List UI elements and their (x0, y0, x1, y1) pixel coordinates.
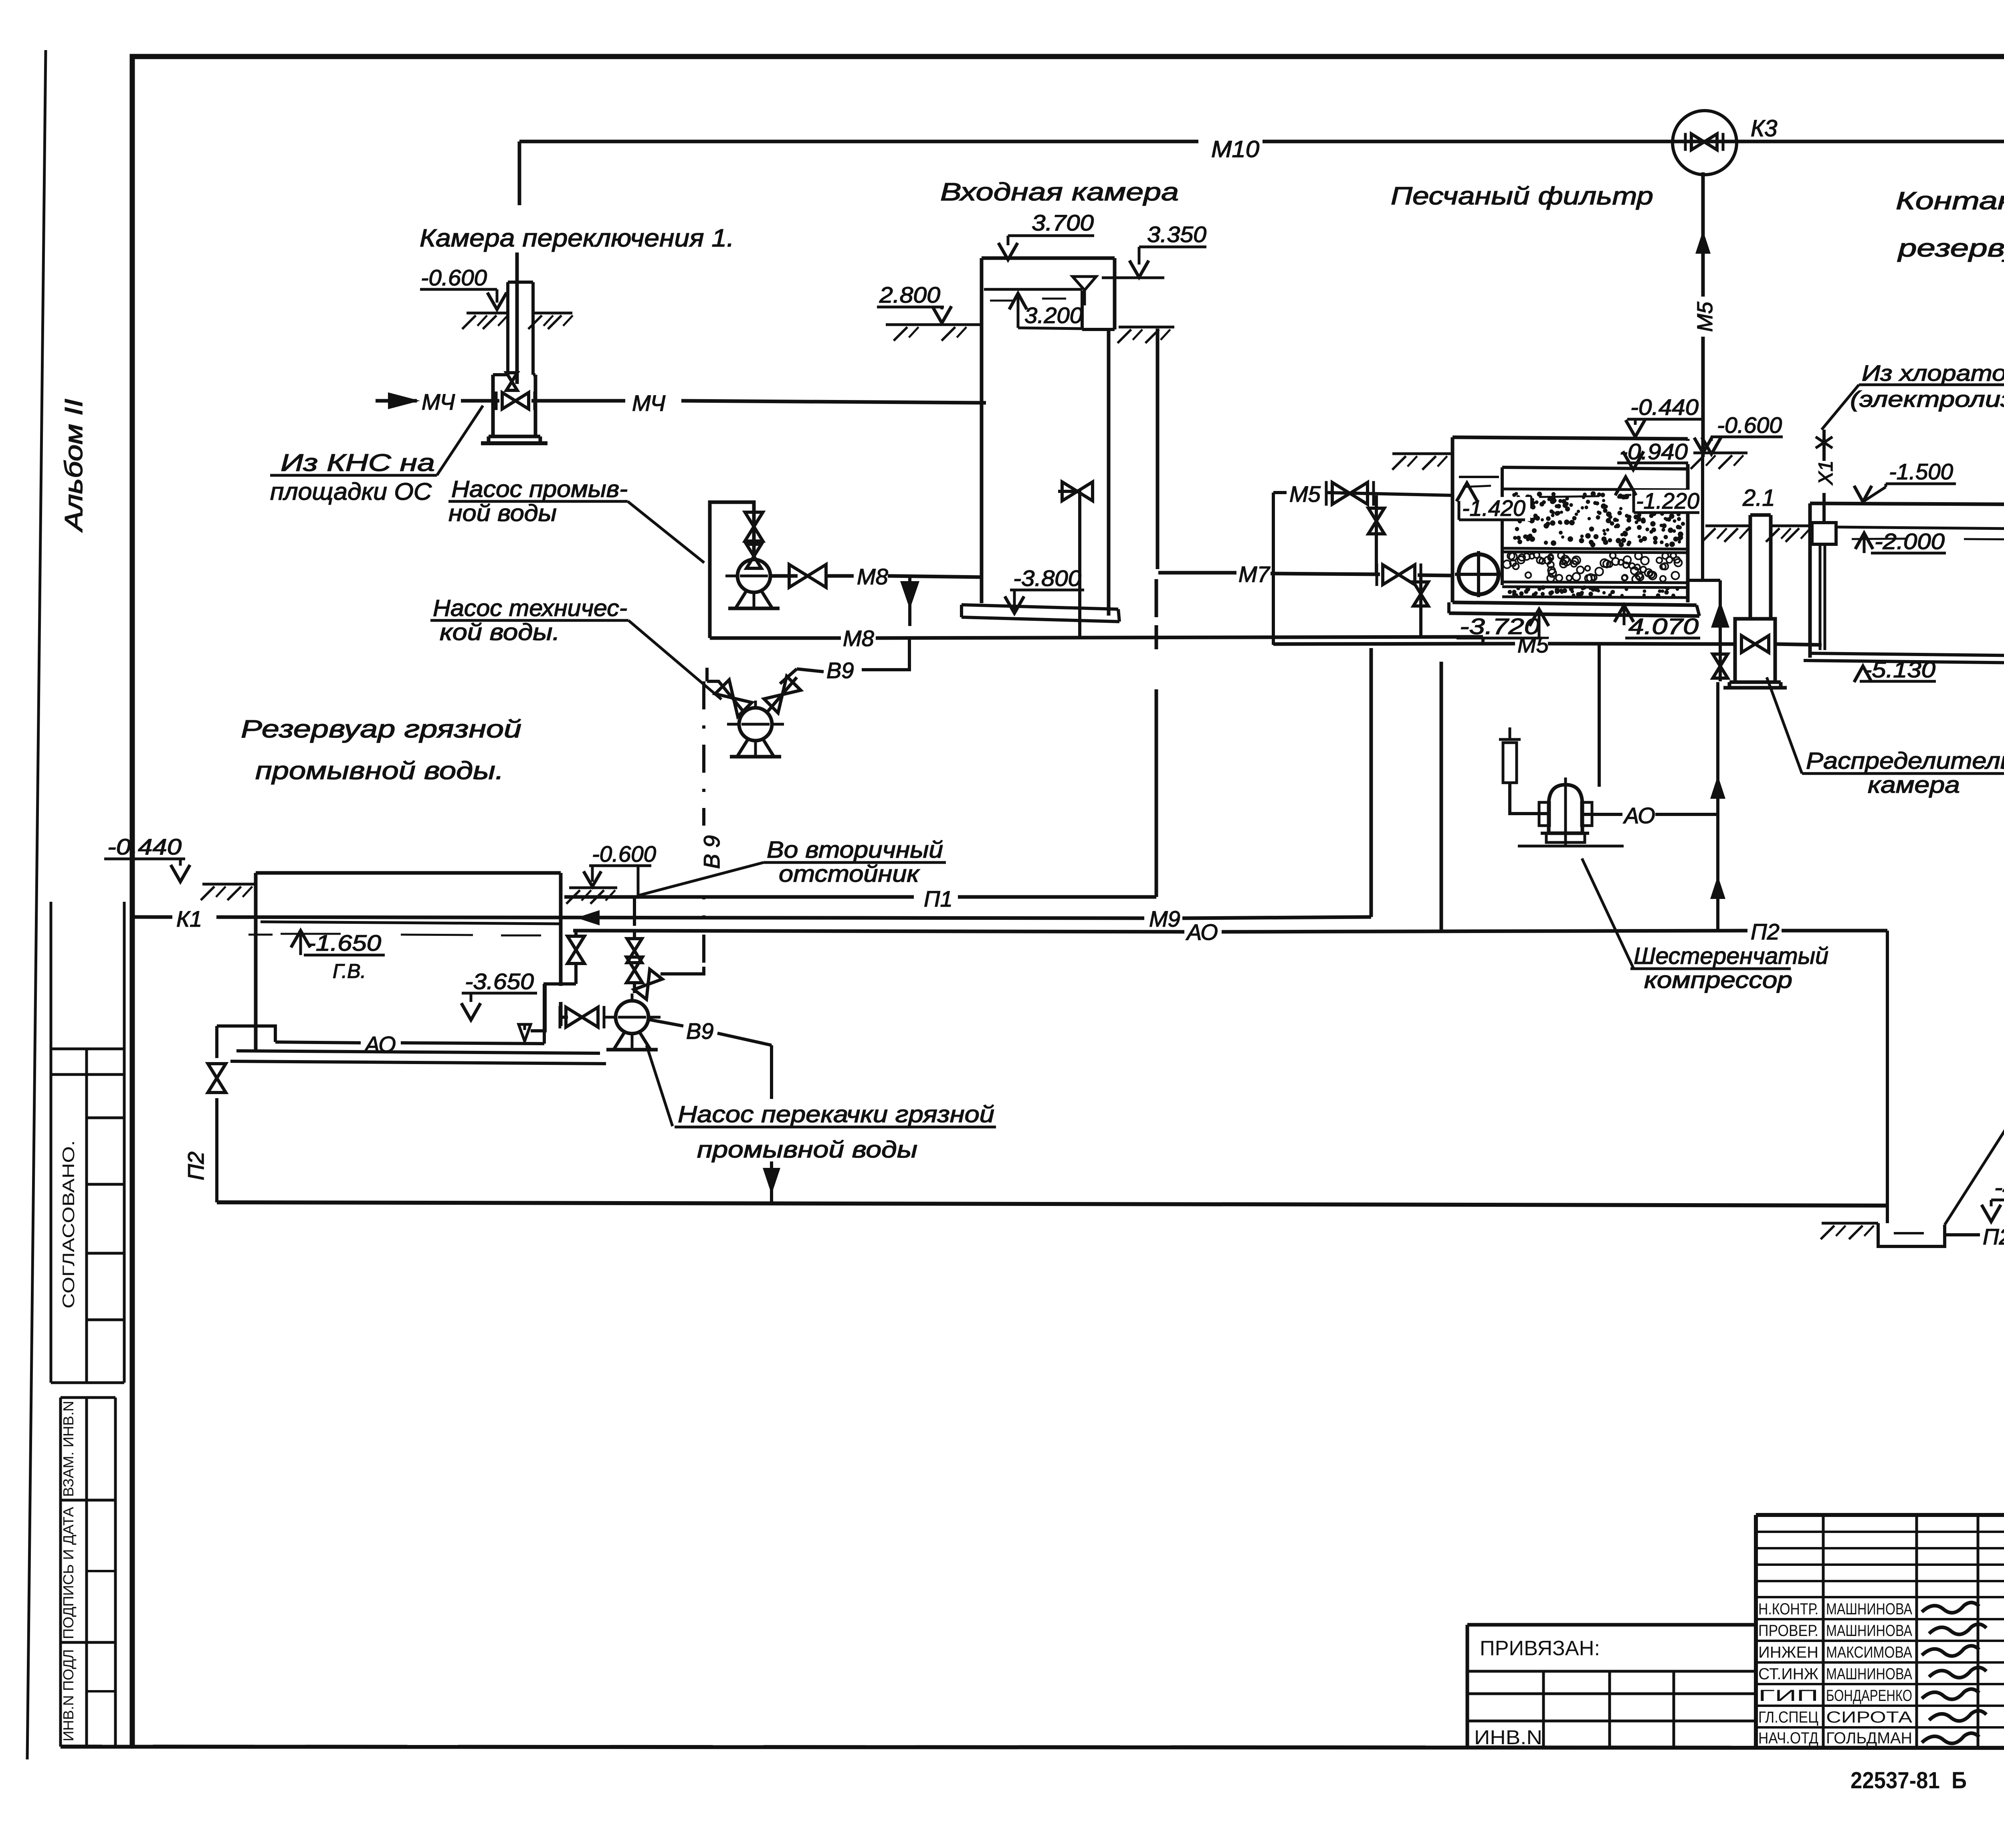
svg-text:2.800: 2.800 (879, 282, 940, 307)
svg-text:БОНДАРЕНКО: БОНДАРЕНКО (1826, 1687, 1912, 1705)
gear compressor (1549, 785, 1582, 833)
svg-text:-1.650: -1.650 (307, 930, 381, 955)
pipe М5 long (1273, 644, 1515, 644)
tech pump suction branch left (707, 681, 744, 713)
АО line in tank (275, 1042, 361, 1043)
svg-text:ПРИВЯЗАН:: ПРИВЯЗАН: (1480, 1637, 1600, 1660)
pipe АО/П2 long (573, 931, 1184, 932)
wash pump discharge М8 (770, 574, 798, 578)
svg-text:22537-81 Б: 22537-81 Б (1850, 1767, 1967, 1793)
svg-text:(электролизной): (электролизной) (1850, 386, 2004, 412)
svg-text:резервуар: резервуар (1897, 234, 2004, 262)
svg-text:площадки ОС: площадки ОС (270, 478, 432, 505)
svg-text:Х1: Х1 (1814, 460, 1837, 485)
svg-text:ПОДПИСЬ И ДАТА: ПОДПИСЬ И ДАТА (60, 1507, 77, 1639)
leader во вторичный (637, 862, 764, 896)
inlet fitting on left wall (1812, 523, 1836, 544)
П1 riser to М7 (1155, 689, 1158, 897)
elevation −1.420 (1458, 497, 1530, 521)
filter inner box (1501, 467, 1504, 585)
tech pump discharge branch right (767, 677, 797, 713)
switching chamber body (491, 375, 495, 436)
svg-text:МАШНИНОВА: МАШНИНОВА (1826, 1665, 1912, 1683)
svg-text:-1.420: -1.420 (1462, 495, 1525, 521)
ground left of inlet chamber (886, 323, 982, 326)
inlet chamber outlet channel walls (1107, 329, 1111, 616)
sheet outer edge line left (27, 50, 46, 1759)
svg-text:М9: М9 (1149, 906, 1180, 931)
svg-text:СОГЛАСОВАНО.: СОГЛАСОВАНО. (59, 1140, 78, 1309)
ground at 2.1 chamber (1705, 525, 1750, 527)
svg-text:ГИП: ГИП (1758, 1687, 1818, 1705)
svg-text:-2.000: -2.000 (1875, 529, 1945, 554)
pipe К1/М9 (131, 917, 1144, 918)
svg-text:К1: К1 (176, 906, 202, 931)
pipe В9 from pump to П2 drop (649, 1020, 683, 1026)
pump technical water (727, 723, 784, 726)
sand dots pattern (1562, 499, 1566, 504)
svg-text:СИРОТА: СИРОТА (1826, 1709, 1912, 1726)
stamp column upper (СОГЛАСОВАНО) (50, 902, 53, 1383)
svg-text:Контактный: Контактный (1896, 187, 2004, 215)
pipe В9 branch (862, 638, 909, 670)
inlet chamber walls (980, 258, 984, 603)
filter water level (1459, 476, 1499, 478)
svg-text:отстойник: отстойник (779, 861, 920, 887)
svg-text:М8: М8 (843, 626, 874, 651)
В9 dash-dot vertical (left) (702, 681, 705, 967)
title block main box (1756, 1513, 2004, 1517)
svg-text:4.070: 4.070 (1628, 614, 1699, 639)
pipe П2 bottom (217, 1202, 1887, 1206)
svg-text:П1: П1 (924, 886, 953, 911)
svg-text:-5.130: -5.130 (1863, 657, 1935, 682)
water level inlet chamber (984, 288, 1082, 291)
wash pump recirculation loop (710, 502, 754, 638)
svg-text:МАКСИМОВА: МАКСИМОВА (1826, 1644, 1912, 1661)
svg-text:-3.650: -3.650 (465, 969, 534, 994)
svg-text:МАШНИНОВА: МАШНИНОВА (1826, 1622, 1912, 1640)
svg-text:-1.220: -1.220 (1636, 488, 1699, 513)
tank floor (236, 1051, 600, 1053)
svg-text:М8: М8 (857, 564, 888, 589)
leader распределительная (1767, 677, 1802, 774)
pump discharge stack (633, 983, 636, 993)
svg-text:Н.КОНТР.: Н.КОНТР. (1758, 1600, 1818, 1618)
air intake device (1503, 743, 1517, 783)
svg-text:П2: П2 (183, 1151, 208, 1180)
pipe М10 (519, 140, 1198, 143)
valves on wash pump loop (745, 512, 763, 541)
svg-text:АО: АО (1186, 919, 1218, 945)
elevation 3.200 (1009, 293, 1027, 309)
water level tank (261, 922, 559, 924)
svg-text:промывной воды: промывной воды (697, 1137, 917, 1163)
svg-text:МЧ: МЧ (422, 389, 455, 414)
svg-text:3.700: 3.700 (1032, 210, 1094, 235)
suction piping (531, 984, 576, 1031)
svg-text:Резервуар грязной: Резервуар грязной (241, 715, 521, 743)
svg-text:Входная камера: Входная камера (940, 178, 1179, 206)
svg-text:МЧ: МЧ (632, 390, 665, 416)
ground left of filter (1392, 452, 1452, 455)
П2 branch from tank (217, 1026, 275, 1042)
svg-text:ГЛ.СПЕЦ: ГЛ.СПЕЦ (1758, 1709, 1818, 1726)
leader Из КНС (437, 406, 483, 475)
ground right of filter (1692, 452, 1747, 454)
svg-text:-0.600: -0.600 (421, 265, 487, 290)
svg-text:М7: М7 (1238, 561, 1271, 587)
svg-text:-0.940: -0.940 (1620, 439, 1688, 464)
svg-text:Г.В.: Г.В. (333, 960, 366, 982)
svg-text:Альбом II: Альбом II (60, 399, 88, 533)
svg-text:М10: М10 (1211, 136, 1259, 162)
compressor riser from М5 (1598, 644, 1601, 787)
pump inlet valve (561, 1016, 568, 1019)
svg-text:компрессор: компрессор (1644, 967, 1792, 993)
valve К3 (circled) (1674, 140, 1734, 143)
contact reservoir water level (1836, 527, 2004, 530)
branch arrow down from М8 (908, 577, 911, 626)
distribution chamber box (1735, 619, 1775, 682)
weir symbol (1073, 277, 1096, 290)
svg-text:НАЧ.ОТД: НАЧ.ОТД (1758, 1729, 1818, 1747)
svg-text:Шестеренчатый: Шестеренчатый (1634, 943, 1828, 969)
discharge check valve slanted (634, 969, 663, 1000)
inlet chamber base plate (962, 605, 1118, 609)
pipe М7 (1158, 571, 1236, 575)
elevation −1.220 (1631, 490, 1705, 514)
М5 bypass over filter (1273, 491, 1287, 494)
filter inlet flange circle (1459, 554, 1499, 594)
svg-text:СТ.ИНЖ: СТ.ИНЖ (1758, 1665, 1818, 1683)
wire М10 drop to switching chamber (518, 141, 521, 205)
svg-text:Из КНС на: Из КНС на (281, 449, 435, 476)
svg-text:-0.600: -0.600 (592, 841, 656, 866)
svg-text:-0.440: -0.440 (107, 834, 182, 859)
svg-text:ПРОВЕР.: ПРОВЕР. (1758, 1622, 1818, 1640)
ground right of inlet chamber (1119, 326, 1174, 329)
valve on М7 (1383, 565, 1415, 585)
svg-text:Насос промыв-: Насос промыв- (451, 476, 628, 502)
elevation −0.940 (1615, 441, 1693, 464)
compressor discharge АО (1581, 813, 1622, 816)
dirty water tank (254, 873, 258, 1051)
svg-text:П2: П2 (1983, 1224, 2004, 1249)
label М5 rotated (filter riser) (1688, 297, 1717, 337)
signature table rows (1756, 1531, 2004, 1533)
filter outlet channel right (1701, 455, 1704, 580)
svg-text:Песчаный фильтр: Песчаный фильтр (1391, 182, 1653, 210)
leader насос перекачки (646, 1045, 673, 1126)
svg-text:П2: П2 (1751, 919, 1780, 944)
svg-text:В9: В9 (826, 658, 854, 683)
signatures squiggles (1922, 1602, 1979, 1613)
pipe П1 (564, 895, 914, 899)
leader насос технической (628, 620, 721, 699)
filter base plate (1452, 602, 1697, 605)
internal drop pipe (1819, 544, 1822, 650)
svg-text:Камера переключения 1.: Камера переключения 1. (420, 224, 734, 252)
svg-text:промывной воды.: промывной воды. (255, 757, 504, 785)
contact reservoir floor with sump (1810, 653, 2004, 656)
svg-text:3.350: 3.350 (1147, 222, 1206, 247)
side valve at 2694 (1058, 491, 1080, 637)
svg-text:камера: камера (1868, 772, 1960, 798)
svg-text:-3.800: -3.800 (1013, 566, 1081, 591)
intake pipe (1510, 783, 1548, 814)
svg-text:-1.500: -1.500 (1889, 459, 1953, 484)
П2 outlet from pit (1945, 1233, 1980, 1236)
svg-text:В 9: В 9 (699, 835, 724, 869)
distribution chamber column (1749, 515, 1752, 619)
signature table columns (1822, 1515, 1825, 1748)
label К1 (172, 902, 216, 930)
svg-text:Из хлораторной: Из хлораторной (1862, 360, 2004, 386)
pump wash water (725, 575, 782, 578)
drain pit (1822, 1222, 1878, 1225)
pipe М4 (376, 399, 417, 403)
svg-text:2.1: 2.1 (1742, 485, 1775, 511)
leader X1 (1822, 385, 1859, 430)
switching chamber shaft (506, 282, 509, 375)
svg-text:-4.200: -4.200 (1994, 1175, 2004, 1200)
valve below М5 at 4292 (1719, 644, 1722, 681)
М5/К3 riser (1701, 172, 1705, 455)
svg-text:Во вторичный: Во вторичный (767, 837, 943, 863)
ground at switching chamber (467, 312, 508, 315)
П2 riser from АО line to pit (1886, 931, 1889, 1223)
svg-text:Насос техничес-: Насос техничес- (433, 595, 627, 621)
leader насос промывной (628, 501, 704, 563)
svg-text:ИНВ.N: ИНВ.N (1474, 1726, 1542, 1749)
bypass drop valve (1375, 495, 1378, 575)
М9 riser (1370, 648, 1373, 917)
overflow box (1081, 291, 1084, 329)
pump перекачки (604, 1016, 661, 1019)
svg-text:АО: АО (1623, 803, 1655, 828)
svg-text:ВЗАМ. ИНВ.N: ВЗАМ. ИНВ.N (60, 1401, 77, 1497)
valve in switching chamber (502, 393, 529, 409)
М5 bypass riser (1272, 493, 1275, 645)
svg-text:Насос перекачки грязной: Насос перекачки грязной (678, 1101, 994, 1127)
АО riser at 3596 (1440, 662, 1443, 931)
svg-text:М5: М5 (1517, 632, 1549, 657)
svg-text:К3: К3 (1751, 115, 1777, 141)
svg-text:Распределительная: Распределительная (1806, 748, 2004, 774)
svg-text:В9: В9 (686, 1018, 714, 1044)
svg-text:кой воды.: кой воды. (440, 619, 560, 645)
pipe М8 return line (710, 636, 841, 640)
suction bellmouth (519, 1024, 531, 1041)
svg-text:ной воды: ной воды (448, 500, 557, 526)
svg-text:ИНВ.N ПОДЛ: ИНВ.N ПОДЛ (60, 1649, 77, 1741)
svg-text:АО: АО (364, 1032, 396, 1057)
leader компрессор (1582, 858, 1634, 969)
svg-text:-0.440: -0.440 (1630, 394, 1699, 420)
svg-text:3.200: 3.200 (1024, 303, 1083, 328)
sand filter tank (1451, 437, 1455, 602)
М5 continue to contact tank (1775, 644, 1822, 645)
pipe В9 dash-dot left (633, 898, 636, 940)
svg-text:М5: М5 (1289, 481, 1321, 507)
svg-text:ГОЛЬДМАН: ГОЛЬДМАН (1826, 1729, 1912, 1747)
svg-text:МАШНИНОВА: МАШНИНОВА (1826, 1600, 1912, 1618)
ground left of tank (202, 883, 256, 886)
drain valve below М7 (1419, 576, 1422, 637)
stamp column lower (ИНВ №) (61, 1396, 115, 1399)
svg-text:ИНЖЕН: ИНЖЕН (1758, 1644, 1818, 1661)
svg-text:М5: М5 (1693, 301, 1717, 332)
filter media layers (1502, 489, 1688, 490)
svg-text:-0.600: -0.600 (1717, 412, 1782, 438)
contact reservoir walls (1808, 503, 1812, 658)
label В 9 rotated (690, 826, 718, 898)
АО riser with arrows (1716, 682, 1719, 931)
pipe Х1 (1822, 430, 1826, 461)
привязан block (1467, 1623, 1756, 1627)
